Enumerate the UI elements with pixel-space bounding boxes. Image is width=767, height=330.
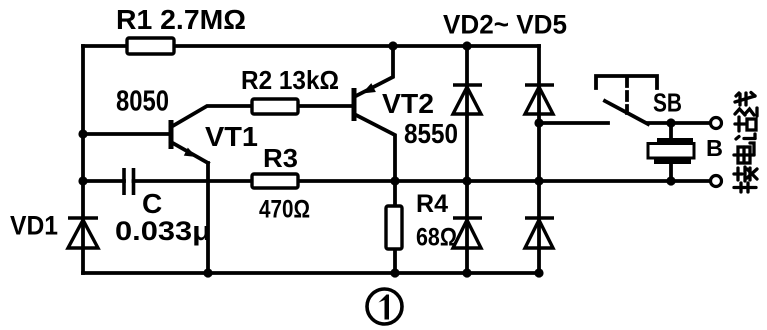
node R4 top / mid rail	[390, 176, 399, 185]
char 接 (bottom)	[734, 167, 757, 192]
svg-text:VT1: VT1	[205, 121, 258, 152]
wire left rail	[81, 46, 85, 273]
wire VT1 emitter vertical	[206, 163, 210, 273]
node bridge bottom-left	[462, 268, 471, 277]
svg-text:470Ω: 470Ω	[259, 196, 310, 224]
diode VD4 bridge bottom-left	[453, 218, 482, 248]
wire bridge right column	[537, 46, 541, 273]
svg-text:R3: R3	[263, 143, 298, 173]
transistor VT1 base bar	[169, 120, 174, 149]
svg-text:VT2: VT2	[382, 88, 434, 119]
wire VT1 collector to R2 to VT2 base	[171, 106, 354, 127]
resistor R4	[386, 206, 402, 249]
transistor VT1 emitter arrow	[184, 148, 197, 157]
node bridge mid-left	[462, 176, 471, 185]
svg-text:8550: 8550	[404, 118, 458, 149]
diode VD5 bridge bottom-right	[525, 218, 554, 248]
node bridge bottom-right	[534, 268, 543, 277]
resistor R3	[252, 174, 298, 188]
node VT1 base on left rail	[78, 129, 87, 138]
figure number circled 1	[367, 289, 402, 324]
wire VT2 collector	[354, 114, 395, 273]
node VT1 emitter on bottom rail	[203, 268, 212, 277]
svg-text:R4: R4	[416, 190, 448, 218]
wire VT1 base	[83, 132, 171, 136]
svg-text:C: C	[142, 188, 162, 219]
svg-text:8050: 8050	[116, 86, 169, 118]
wire switch feed	[539, 121, 608, 125]
svg-text:SB: SB	[653, 88, 682, 118]
char 线 (top)	[735, 93, 757, 117]
vertical label 接电话线 (hand drawn, rotated)	[734, 93, 757, 193]
node VT2 emitter on top rail	[388, 41, 397, 50]
wire B top lead	[669, 123, 673, 140]
wire VT1 emitter diagonal	[171, 142, 208, 163]
resistor R1	[127, 38, 174, 54]
svg-text:VD2~ VD5: VD2~ VD5	[443, 10, 567, 40]
capacitor C plates	[124, 168, 134, 195]
node B top	[666, 118, 675, 127]
wire VT2 emitter to top rail	[354, 46, 393, 97]
wire mid rail C to right terminal	[134, 179, 711, 183]
node bridge mid-right	[534, 176, 543, 185]
char 电	[734, 143, 754, 163]
terminal top circle	[711, 118, 722, 129]
terminal bottom circle	[711, 176, 722, 187]
svg-text:0.033μ: 0.033μ	[115, 216, 211, 246]
node C row on left rail	[78, 176, 87, 185]
diode VD1	[68, 218, 98, 248]
wire switch blade	[605, 101, 648, 124]
diode VD3 bridge top-right	[525, 85, 554, 114]
wire bottom rail	[83, 271, 539, 275]
char 话	[735, 117, 756, 139]
node R4 bottom rail	[390, 268, 399, 277]
diode VD2 bridge top-left	[453, 85, 482, 114]
svg-text:VD1: VD1	[10, 211, 58, 241]
transistor VT2 emitter arrow	[362, 83, 376, 93]
pushbutton SB bracket	[596, 76, 657, 88]
node bridge top-left	[462, 41, 471, 50]
transistor VT2 base bar	[352, 88, 357, 121]
svg-text:R1 2.7MΩ: R1 2.7MΩ	[116, 4, 246, 35]
node switch feed	[534, 118, 543, 127]
svg-text:68Ω: 68Ω	[416, 224, 457, 252]
resistor R2	[252, 99, 298, 114]
wire bridge left column	[465, 46, 469, 273]
sounder B bottom plate	[654, 158, 691, 164]
node B bottom	[666, 176, 675, 185]
svg-text:B: B	[706, 135, 723, 161]
sounder B body	[648, 144, 694, 159]
pushbutton SB dashed actuator	[625, 78, 629, 113]
svg-text:R2 13kΩ: R2 13kΩ	[241, 65, 339, 95]
wire top rail	[83, 44, 539, 48]
wire switch to terminal	[648, 121, 710, 125]
sounder B top plate	[657, 138, 693, 144]
wire mid rail left of C	[83, 179, 124, 183]
wire B bottom lead	[669, 162, 673, 181]
